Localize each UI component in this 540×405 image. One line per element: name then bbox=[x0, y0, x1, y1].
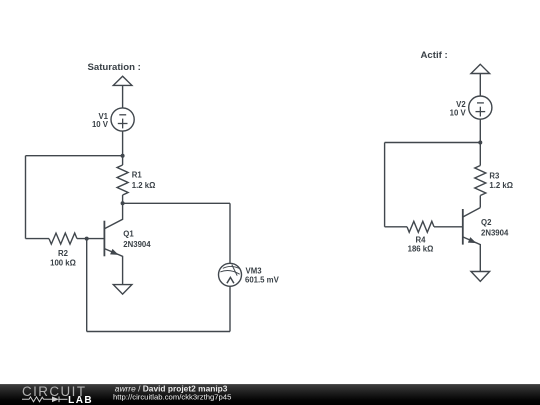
wire bbox=[26, 238, 50, 240]
transistor Q1 2N3904 bbox=[104, 203, 151, 284]
wire bbox=[86, 239, 88, 332]
voltage source V1 bbox=[92, 108, 134, 131]
wire bbox=[122, 85, 124, 108]
voltmeter VM3 bbox=[219, 263, 280, 286]
node junction below V1 bbox=[121, 154, 125, 158]
resistor R1 bbox=[117, 156, 155, 204]
resistor R2 bbox=[49, 233, 77, 267]
wire bbox=[434, 226, 463, 228]
svg-text:R1: R1 bbox=[132, 170, 143, 179]
svg-text:1.2 kΩ: 1.2 kΩ bbox=[132, 181, 156, 190]
svg-text:10 V: 10 V bbox=[92, 120, 109, 129]
wire bbox=[385, 142, 481, 144]
wire bbox=[229, 203, 231, 263]
svg-text:Saturation :: Saturation : bbox=[88, 62, 141, 73]
power flag VCC arrow (right) bbox=[471, 64, 490, 73]
svg-text:http://circuitlab.com/ckk3rzth: http://circuitlab.com/ckk3rzthg7p45 bbox=[113, 392, 231, 401]
ground (left) bbox=[113, 285, 132, 295]
node junction below R1 bbox=[121, 201, 125, 205]
svg-text:R3: R3 bbox=[489, 172, 500, 181]
wire bbox=[77, 238, 104, 240]
svg-text:2N3904: 2N3904 bbox=[123, 240, 151, 249]
wire bbox=[25, 156, 27, 239]
voltage source V2 bbox=[450, 96, 492, 119]
transistor Q2 2N3904 bbox=[463, 208, 509, 272]
wire bbox=[87, 331, 230, 333]
wire bbox=[479, 119, 481, 142]
svg-text:LAB: LAB bbox=[68, 395, 93, 405]
resistor R4 bbox=[407, 221, 434, 253]
svg-text:2N3904: 2N3904 bbox=[481, 229, 509, 238]
svg-text:R2: R2 bbox=[58, 249, 69, 258]
wire bbox=[384, 143, 386, 227]
wire bbox=[385, 226, 407, 228]
svg-text:100 kΩ: 100 kΩ bbox=[50, 258, 76, 267]
wire bbox=[26, 155, 123, 157]
svg-text:Q2: Q2 bbox=[481, 218, 492, 227]
wire bbox=[479, 74, 481, 97]
svg-text:VM3: VM3 bbox=[246, 267, 263, 276]
resistor R3 bbox=[475, 143, 513, 208]
svg-text:1.2 kΩ: 1.2 kΩ bbox=[489, 181, 513, 190]
power flag VCC arrow (left) bbox=[113, 76, 132, 85]
wire bbox=[123, 202, 230, 204]
svg-text:186 kΩ: 186 kΩ bbox=[408, 244, 434, 253]
svg-text:601.5 mV: 601.5 mV bbox=[245, 276, 280, 285]
svg-text:10 V: 10 V bbox=[450, 109, 467, 118]
wire bbox=[122, 131, 124, 156]
svg-text:Actif :: Actif : bbox=[421, 50, 448, 61]
wire bbox=[229, 286, 231, 331]
CircuitLab logo: resistor-diode squiggle bbox=[22, 397, 68, 403]
svg-text:R4: R4 bbox=[416, 235, 427, 244]
ground (right) bbox=[471, 272, 490, 282]
node junction below V2 bbox=[478, 141, 482, 145]
node junction at Q1 base bbox=[85, 237, 89, 241]
svg-text:Q1: Q1 bbox=[123, 230, 134, 239]
